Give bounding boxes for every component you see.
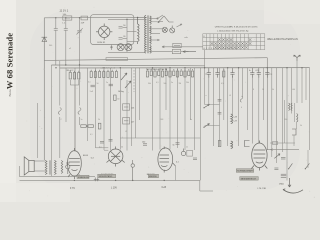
label box 2 — [240, 177, 258, 181]
scattered value labels — [61, 82, 302, 137]
svg-text:4: 4 — [241, 107, 242, 109]
bracket comp — [245, 141, 250, 147]
resistor R14 — [158, 69, 160, 75]
IF box 1 — [123, 104, 130, 110]
wire vert x177 — [177, 68, 179, 148]
tube V2 output EL — [68, 148, 82, 179]
svg-text:2k: 2k — [98, 119, 100, 121]
wire y125 — [205, 125, 220, 127]
tube V3 triode circle — [107, 147, 125, 167]
wire vert x37 — [37, 103, 39, 158]
capacitor C10 — [257, 68, 261, 78]
wire vert x287 — [286, 68, 288, 181]
wire vert x276 — [275, 68, 277, 163]
cap C17 stack — [281, 174, 286, 177]
table X marks — [211, 38, 252, 49]
loudspeaker LS — [24, 157, 34, 175]
squiggle omega — [240, 96, 243, 102]
svg-text:SPANNUNG: SPANNUNG — [78, 176, 90, 179]
svg-text:50: 50 — [97, 83, 99, 85]
resistor R28 zigzag — [61, 160, 63, 173]
svg-text:NORMALDRAHT: NORMALDRAHT — [237, 170, 254, 173]
wire vert x238 — [238, 68, 240, 146]
transformer T1 primary winding — [145, 15, 147, 53]
wire vert x170 — [169, 68, 171, 150]
svg-text:L9: L9 — [229, 95, 231, 97]
ratio coil 3 — [297, 114, 298, 122]
svg-text:340: 340 — [49, 45, 52, 47]
wire bottom left rail drop — [19, 166, 21, 177]
capacitor C7 — [215, 68, 219, 78]
resistor R1 — [69, 71, 71, 79]
svg-text:5k: 5k — [272, 89, 274, 91]
capacitor C6 — [207, 68, 211, 78]
resistor R17 — [169, 69, 171, 77]
ratio core — [293, 103, 295, 122]
svg-text:UKW 87,5-100MHz K 49-19,5m M: UKW 87,5-100MHz K 49-19,5m M 577-187m — [215, 26, 258, 28]
svg-text:L 2000-1060m GW 370-270m Sp: L 2000-1060m GW 370-270m Sp — [217, 30, 249, 32]
wire bottom right drop — [199, 180, 201, 191]
bus main A — [51, 64, 205, 67]
small box between — [187, 150, 193, 156]
svg-text:ECH 81: ECH 81 — [98, 42, 106, 44]
svg-text:100: 100 — [142, 142, 145, 144]
transformer T1 core — [147, 15, 150, 53]
resistor R6 — [99, 70, 101, 78]
svg-text:1,4k: 1,4k — [63, 14, 67, 16]
capacitor C8 — [230, 68, 234, 78]
svg-text:5n: 5n — [171, 82, 173, 84]
transformer T1 secondary 1 — [150, 16, 151, 24]
wire vert x204 mid — [204, 68, 206, 105]
svg-text:8: 8 — [253, 89, 254, 91]
wire heater drop x127 — [126, 19, 128, 52]
transformer T1 secondary 3 — [150, 36, 151, 44]
dial cord arc — [283, 190, 303, 194]
output transformer T2 winding R — [54, 160, 56, 174]
wire vert x306 — [305, 68, 307, 100]
wire vert x135 — [135, 68, 137, 138]
cap C14 — [193, 158, 197, 159]
svg-text:d: d — [205, 73, 206, 75]
svg-text:0,5: 0,5 — [221, 83, 224, 85]
band switch S2 — [158, 16, 174, 23]
wire vert x247 — [247, 68, 249, 130]
left margin lighter strip — [0, 0, 16, 202]
wire join y85 — [70, 84, 79, 86]
pot coupling dashed — [133, 70, 135, 92]
wire join drop x75 — [74, 85, 76, 152]
wire x308 seg — [307, 150, 309, 168]
svg-text:a2: a2 — [69, 48, 71, 50]
switch contact row1 — [203, 104, 209, 108]
phono jack J1 — [170, 26, 175, 33]
wire band switch feed — [151, 21, 157, 23]
bus upper — [44, 58, 267, 61]
switch S1 mains — [157, 15, 163, 22]
wire vert x284 — [284, 100, 286, 143]
wire bottom left rail — [20, 176, 96, 178]
wire vert x309 — [309, 68, 311, 150]
svg-text:L27: L27 — [131, 121, 134, 123]
switch contact right 2 — [305, 163, 310, 169]
coil L30 — [231, 141, 233, 149]
wire vert x139 — [139, 68, 141, 120]
wire vert x213 — [213, 68, 215, 146]
wire top line B — [108, 18, 145, 20]
svg-text:30: 30 — [123, 36, 125, 38]
antenna symbol — [42, 37, 48, 41]
wire vert x60 upper — [59, 61, 61, 106]
contact mark — [111, 45, 113, 51]
resistor R27 — [218, 141, 221, 147]
capacitor C12 mid — [143, 144, 147, 145]
svg-text:16: 16 — [262, 89, 264, 91]
bus corner drop — [266, 58, 268, 150]
resistor R2 — [73, 71, 75, 79]
ratio coil 2 — [291, 103, 292, 111]
cap C16 right — [274, 168, 278, 170]
filter box L3 — [81, 16, 88, 20]
svg-text:WELLENSCHALTERPLAN: WELLENSCHALTERPLAN — [267, 38, 298, 41]
resistor R23 — [191, 69, 193, 77]
lamp La1 — [117, 44, 124, 51]
mains cord arrow — [183, 51, 196, 53]
wire tap2 — [151, 28, 162, 30]
switch position table grid — [203, 34, 265, 50]
svg-text:50: 50 — [123, 25, 125, 27]
wire vert x296 low — [296, 122, 298, 129]
label box 1 — [236, 169, 254, 173]
tube V1 mixer circle — [96, 24, 112, 41]
label strip left of V4 — [148, 174, 158, 178]
wire tap1 — [151, 18, 158, 20]
cap bars x219 — [218, 100, 222, 115]
resistor R12 — [150, 69, 152, 75]
electrolytic C15 — [66, 161, 70, 175]
filter box L2 — [63, 16, 72, 20]
switch contact right 1 — [288, 163, 292, 169]
svg-text:1n: 1n — [186, 147, 188, 149]
wire tap4 arrow — [151, 39, 160, 41]
wire V4 to rail — [175, 166, 177, 180]
wire vert x252 — [251, 76, 253, 144]
svg-text:C+B: C+B — [162, 187, 167, 189]
wire vert x160 — [159, 68, 161, 150]
switch contact row2 — [203, 124, 209, 128]
svg-text:11 1V 1: 11 1V 1 — [60, 9, 69, 13]
arrow down ground — [288, 178, 291, 187]
cap C19 small — [109, 140, 113, 142]
wire bus y138 — [120, 137, 200, 139]
wire vert x78b — [78, 80, 80, 85]
resistor R20 — [180, 69, 182, 75]
svg-text:20k 0,1 50k 5n 0,1 30k 1M: 20k 0,1 50k 5n 0,1 30k 1M — [146, 69, 168, 71]
wire vert x60 lower — [59, 117, 61, 158]
resistor R16 — [165, 69, 167, 75]
wire y104 — [205, 104, 220, 106]
wire vert x51 — [50, 65, 52, 176]
wire vert x219 — [219, 68, 221, 146]
trimmer C3 — [77, 18, 83, 65]
svg-text:30k: 30k — [148, 83, 151, 85]
pilot lamp La3 — [162, 27, 167, 32]
coil L4 oscillator — [138, 18, 140, 45]
wire vert x200 — [199, 68, 201, 181]
resistor R13 — [154, 69, 156, 77]
small box right top — [273, 141, 278, 144]
ratio coil 1 — [289, 103, 290, 111]
capacitor C11 — [265, 68, 269, 78]
bottom-left light area — [0, 183, 70, 202]
wire vert x208 — [208, 76, 210, 105]
wire vert x294 low — [293, 135, 295, 146]
resistor R4 — [90, 70, 92, 78]
resistor R11 — [146, 69, 148, 77]
svg-text:2n: 2n — [106, 82, 108, 84]
svg-text:L29: L29 — [234, 121, 237, 123]
mixer shield box — [91, 15, 134, 45]
label strip right of V2 — [77, 175, 89, 179]
resistor R8 — [107, 70, 109, 78]
capacitor C1 — [54, 18, 58, 65]
wire vert x190 — [190, 68, 192, 120]
wire vert x104 — [103, 68, 105, 150]
wire table drop — [204, 50, 206, 68]
IF box 2 — [123, 118, 130, 124]
resistor R24 — [223, 69, 225, 77]
wire vert x291 — [291, 68, 293, 114]
wire vert x297 — [296, 61, 298, 103]
terminal marks right of rail — [94, 178, 99, 182]
squiggle lead right — [78, 108, 81, 115]
wire vert x232 — [232, 76, 234, 114]
wire seg y143 right — [270, 142, 295, 144]
wire vert x79 lower — [79, 117, 81, 125]
resistor R19 — [176, 69, 178, 77]
svg-text:W 68 Serenade: W 68 Serenade — [5, 33, 15, 89]
resistor R10 — [115, 70, 117, 78]
resistor R18 — [173, 69, 175, 75]
voltage selector box — [172, 49, 180, 53]
lamp La2 — [125, 44, 132, 51]
svg-text:20k: 20k — [186, 82, 189, 84]
resistor R26 vertical — [98, 123, 101, 129]
resistor R29 small — [114, 95, 117, 100]
cap C18 small — [100, 142, 104, 144]
wire vert x258 — [258, 76, 260, 144]
wire vert x87 — [87, 68, 89, 141]
ratio bracket — [292, 129, 296, 135]
svg-text:L40: L40 — [292, 89, 295, 91]
cap C22 left — [109, 84, 113, 86]
capacitor C5 in box — [119, 38, 127, 40]
phono input arrow — [162, 46, 203, 48]
svg-text:1MΩ: 1MΩ — [279, 183, 284, 185]
svg-text:a: a — [206, 95, 207, 97]
capacitor C9 — [250, 68, 254, 78]
wire vert x166 — [165, 68, 167, 110]
svg-text:L5: L5 — [125, 131, 127, 133]
wire seg y147 left — [96, 147, 109, 149]
small jack circle — [181, 149, 185, 156]
tube V4 EABC oval — [158, 147, 173, 173]
coil L28 — [231, 114, 233, 124]
wire vert x227 — [227, 68, 229, 146]
resistor R3 — [78, 71, 80, 79]
transformer T1 secondary 2 — [150, 26, 151, 34]
svg-text:5n: 5n — [173, 145, 175, 147]
resistor R25 horizontal — [81, 125, 94, 128]
wire vert x282 — [282, 68, 284, 152]
wire vert x79 upper — [79, 65, 81, 106]
svg-text:50k: 50k — [164, 83, 167, 85]
wire heater bus — [108, 51, 145, 53]
labels above tube row — [99, 147, 188, 149]
potentiometer P2 arrow — [125, 81, 131, 88]
wire vert x271 — [271, 68, 273, 157]
svg-text:50: 50 — [121, 147, 123, 149]
resistor R5 — [94, 70, 96, 78]
wire vert x66 — [65, 68, 67, 122]
svg-text:0,1: 0,1 — [176, 162, 179, 164]
wire vert x120 — [119, 68, 121, 150]
svg-text:1M log: 1M log — [118, 91, 124, 93]
svg-text:abcdefghik: abcdefghik — [101, 68, 116, 70]
svg-text:L28: L28 — [234, 117, 237, 119]
wire seg y150 tube — [104, 149, 108, 151]
svg-text:L74 C38: L74 C38 — [258, 188, 267, 190]
capacitor C4 in box — [119, 27, 127, 29]
svg-text:F 79: F 79 — [70, 188, 75, 190]
wire top line A — [44, 17, 145, 19]
wire vert x194 — [194, 68, 196, 150]
paper shading — [30, 10, 300, 190]
dial cord arrow — [283, 189, 285, 191]
junction dots — [55, 17, 303, 69]
svg-text:30: 30 — [117, 99, 119, 101]
wire vert x110 — [110, 68, 112, 150]
svg-text:0,1: 0,1 — [90, 134, 93, 136]
potentiometer P1 arrow — [121, 73, 127, 80]
transformer T1 secondary 4 — [150, 46, 151, 54]
wire vert x242 — [242, 68, 244, 97]
diode arrow 1 — [274, 154, 280, 159]
wire vert x70 — [69, 80, 71, 85]
wire eye feed — [267, 149, 299, 151]
wire to coil L4 — [127, 31, 137, 33]
resistor R9 — [111, 70, 113, 78]
wire vert x263 — [263, 68, 265, 120]
wire bottom step — [200, 190, 213, 192]
wire vert x75 — [74, 68, 76, 152]
svg-text:WIDERSTAND: WIDERSTAND — [99, 175, 113, 178]
svg-text:EL84: EL84 — [83, 155, 89, 157]
resistor R15 — [161, 69, 163, 77]
resistor R21 — [184, 69, 186, 77]
svg-text:0 1 2 3 4 5 6 7 8 9 10 11 12: 0 1 2 3 4 5 6 7 8 9 10 11 12 — [204, 48, 239, 50]
wire to mains plug — [181, 51, 189, 53]
small circle component — [131, 160, 134, 180]
top-right light area — [264, 0, 320, 24]
wire vert x302 — [301, 68, 303, 103]
tube V4 side pin — [173, 163, 176, 166]
bus main B — [59, 67, 309, 69]
TA box — [173, 43, 181, 47]
rail junction dots — [74, 180, 165, 181]
wire speaker top — [34, 160, 45, 162]
svg-text:L 10V: L 10V — [111, 187, 117, 189]
svg-text:5k: 5k — [300, 125, 302, 127]
label strip under V3 — [98, 174, 116, 178]
wire transformer bottom — [150, 51, 172, 53]
capacitor C2 — [64, 18, 68, 65]
wire vert x152 — [152, 68, 154, 151]
svg-text:MESSW: MESSW — [149, 176, 157, 178]
wire vert x127 mid — [126, 80, 128, 151]
svg-text:0,1: 0,1 — [156, 82, 159, 84]
svg-text:0,1: 0,1 — [88, 82, 91, 84]
ferrite rod antenna — [106, 58, 128, 61]
wire vert x223 — [223, 68, 225, 120]
scan speckles — [26, 7, 314, 198]
wire bottom long rail — [20, 179, 200, 181]
svg-text:MESSBEREICH: MESSBEREICH — [241, 178, 257, 180]
arrow contact — [177, 24, 183, 27]
capacitor C13 mid — [176, 143, 180, 144]
wire speaker bottom — [34, 170, 45, 172]
wire coil bottom left — [127, 41, 138, 43]
svg-text:L26: L26 — [131, 108, 134, 110]
svg-text:0,1: 0,1 — [99, 147, 102, 149]
resistor R22 — [188, 69, 190, 75]
cap C21 left — [91, 85, 95, 87]
output transformer T2 core — [49, 160, 50, 174]
svg-text:1n: 1n — [81, 119, 83, 121]
output transformer T2 winding L — [45, 160, 47, 174]
svg-text:C48: C48 — [160, 119, 163, 121]
squiggle lead left — [58, 108, 61, 115]
wire tap3 — [151, 33, 160, 35]
FM antenna — [294, 55, 300, 61]
resistor R7 — [103, 70, 105, 78]
svg-text:2Ω μF 2: 2Ω μF 2 — [67, 70, 74, 72]
wire left antenna drop — [43, 18, 45, 160]
wire vert x95 — [95, 68, 97, 148]
cap C20 right — [281, 158, 286, 160]
tube V5 magic eye oval — [252, 141, 268, 171]
wire vert x185 — [184, 68, 186, 150]
svg-text:1n: 1n — [190, 119, 192, 121]
wire vert x131 — [131, 68, 133, 146]
